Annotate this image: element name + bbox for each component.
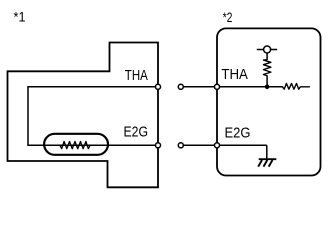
svg-text:E2G: E2G (124, 123, 149, 140)
svg-text:*2: *2 (223, 9, 233, 25)
svg-text:THA: THA (125, 67, 148, 84)
svg-text:THA: THA (221, 66, 248, 83)
svg-text:E2G: E2G (225, 124, 251, 141)
svg-text:*1: *1 (14, 9, 26, 25)
